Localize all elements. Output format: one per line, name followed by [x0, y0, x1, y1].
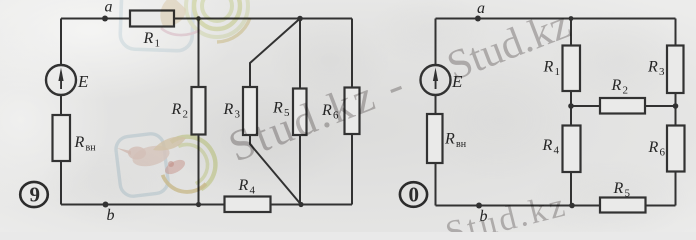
- svg-text:2: 2: [623, 85, 629, 97]
- svg-text:R: R: [648, 139, 659, 156]
- svg-text:4: 4: [250, 185, 256, 197]
- svg-text:R: R: [542, 137, 553, 154]
- svg-text:b: b: [107, 207, 115, 224]
- svg-text:R: R: [143, 30, 154, 47]
- svg-text:R: R: [543, 59, 554, 76]
- svg-text:вн: вн: [86, 143, 97, 154]
- svg-text:вн: вн: [456, 139, 467, 150]
- svg-text:1: 1: [155, 38, 161, 50]
- svg-text:R: R: [647, 59, 658, 76]
- svg-text:E: E: [77, 72, 89, 91]
- svg-text:0: 0: [409, 183, 420, 207]
- svg-text:R: R: [613, 180, 624, 197]
- svg-text:R: R: [171, 101, 182, 118]
- svg-text:R: R: [238, 177, 249, 194]
- svg-text:9: 9: [30, 183, 41, 207]
- svg-text:5: 5: [625, 188, 631, 200]
- svg-text:1: 1: [555, 66, 561, 78]
- svg-text:R: R: [223, 101, 234, 118]
- svg-text:R: R: [444, 131, 455, 148]
- svg-text:4: 4: [554, 145, 560, 157]
- svg-text:a: a: [477, 0, 485, 17]
- svg-text:2: 2: [183, 109, 189, 121]
- svg-text:R: R: [74, 134, 85, 151]
- svg-text:6: 6: [660, 147, 666, 159]
- svg-text:a: a: [105, 0, 113, 16]
- svg-text:3: 3: [659, 66, 665, 78]
- svg-text:R: R: [611, 77, 622, 94]
